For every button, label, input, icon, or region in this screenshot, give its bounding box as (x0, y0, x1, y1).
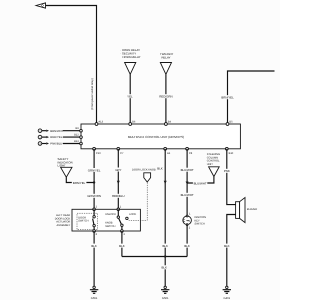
input 3 PNK/BLU (38, 142, 81, 146)
wire label BLU/WHT (193, 181, 207, 185)
pin C7 (117, 147, 124, 155)
svg-text:BLK: BLK (157, 167, 163, 171)
svg-text:A13: A13 (98, 120, 103, 123)
label: left rear door lock actuator assembly (55, 214, 71, 227)
wire label GRY (114, 168, 122, 172)
svg-text:HORN RELAY: HORN RELAY (123, 55, 141, 59)
wire label BLK (160, 265, 168, 269)
ground G501 (161, 286, 169, 300)
actuator pin 2 (93, 205, 98, 210)
inline connector on C7 wire (117, 181, 120, 184)
ignition key switch pin 1 (189, 213, 191, 216)
svg-text:BLK: BLK (184, 244, 190, 248)
svg-text:G401: G401 (224, 297, 231, 300)
wire: twilight relay to pin B4 (165, 74, 167, 124)
input 2 RED/YEL (38, 135, 81, 139)
wire label PNK (223, 169, 231, 173)
svg-text:GRN/YEL: GRN/YEL (88, 168, 101, 172)
pin C10 (93, 147, 102, 155)
ignition key switch label (195, 216, 207, 226)
svg-text:ASSEMBLY: ASSEMBLY (57, 224, 71, 227)
junction on ground bus (164, 255, 166, 257)
svg-text:LOCK: LOCK (129, 213, 136, 216)
wire: ignition key switch to junction (186, 225, 188, 257)
pin A6 (164, 147, 171, 155)
svg-text:MULTIPLEX CONTROL UNIT (DRIVER: MULTIPLEX CONTROL UNIT (DRIVER'S) (128, 135, 184, 139)
knob switch label (105, 222, 115, 228)
pin C8 (186, 147, 193, 155)
door switch label (78, 216, 88, 222)
steering column control unit label (207, 153, 220, 166)
junction on C10 wire (93, 181, 95, 183)
wire label BLU/WHT (180, 193, 195, 197)
svg-text:A6: A6 (167, 152, 171, 155)
svg-text:G501: G501 (162, 297, 169, 300)
svg-text:LIGHT: LIGHT (58, 163, 67, 167)
svg-text:PNK/BLU: PNK/BLU (50, 142, 62, 146)
svg-text:B13: B13 (74, 140, 79, 143)
wire: safety light branch (66, 177, 94, 182)
actuator pin 3 (121, 230, 126, 237)
svg-text:RED/GRN: RED/GRN (159, 95, 172, 99)
svg-text:UNIT: UNIT (207, 163, 213, 166)
wire: actuator pin 3 down (121, 231, 123, 257)
svg-text:BRN/YEL: BRN/YEL (221, 96, 234, 100)
note (Power to socket) on A13 wire (91, 78, 94, 109)
svg-text:BLK: BLK (91, 244, 97, 248)
svg-text:BLK: BLK (119, 244, 125, 248)
knob switch contacts (117, 209, 128, 231)
svg-text:BLK: BLK (224, 244, 230, 248)
svg-text:GRN/ORN: GRN/ORN (87, 194, 101, 198)
svg-text:B10: B10 (229, 152, 234, 155)
svg-text:RED/YEL: RED/YEL (50, 135, 62, 139)
door switch dashed box (77, 213, 97, 229)
pin B13 (74, 140, 82, 145)
wire: C7 to actuator pin 1 (117, 149, 119, 210)
svg-text:G551: G551 (91, 297, 98, 300)
wire label RED/GRN (158, 94, 173, 98)
svg-text:YEL: YEL (127, 95, 133, 99)
wire label RED/BLU (111, 194, 126, 198)
svg-text:BLK: BLK (161, 266, 167, 270)
svg-text:BLU/WHT: BLU/WHT (181, 168, 194, 172)
actuator pin 1 (117, 205, 122, 210)
pin B12 (74, 134, 82, 139)
multiplex control unit (driver's) (81, 124, 240, 149)
wire: B10 to buzzer (227, 149, 236, 205)
steering column control unit triangle (209, 167, 220, 177)
svg-text:RED/BLU: RED/BLU (112, 194, 125, 198)
twilight relay label (160, 52, 174, 60)
pin B10 (225, 147, 233, 155)
door lock knob label (132, 169, 156, 172)
inline connector on C8 wire (186, 182, 189, 185)
door switch contacts (93, 209, 96, 231)
actuator pin 8 (93, 230, 98, 237)
svg-text:BRN/WHT: BRN/WHT (50, 129, 63, 133)
wire label BLK (223, 244, 231, 248)
inline connector on A6 wire (164, 181, 167, 184)
buzzer (236, 198, 258, 223)
svg-text:SWITCH: SWITCH (195, 223, 205, 226)
wire label BRN/YEL (220, 95, 235, 99)
wire label BLK (156, 166, 163, 170)
svg-text:(From power socket relay): (From power socket relay) (91, 78, 94, 109)
wire label BLK (118, 244, 126, 248)
ignition key switch (183, 215, 192, 225)
ground G401 (223, 286, 231, 300)
dashed link: knob to switch lever (129, 183, 148, 221)
svg-text:DOOR LOCK KNOB: DOOR LOCK KNOB (132, 169, 156, 172)
svg-text:RELAY: RELAY (162, 56, 171, 60)
svg-text:BRN/YEL: BRN/YEL (73, 181, 86, 185)
svg-text:C7: C7 (120, 152, 124, 155)
svg-text:BLU/WHT: BLU/WHT (181, 193, 194, 197)
wire label BLK (161, 244, 169, 248)
wire: C8 to ignition key switch (186, 149, 188, 216)
pin B5 (226, 120, 233, 125)
svg-text:C10: C10 (96, 152, 101, 155)
knob switch LOCK label (129, 213, 136, 216)
wire: horn relay to pin B6 (129, 74, 131, 124)
wire label BLU/WHT (180, 168, 195, 172)
svg-text:BLK: BLK (162, 244, 168, 248)
wire label GRN/YEL (87, 168, 102, 172)
knob switch UNLOCK label (105, 213, 116, 216)
pin B6 (129, 120, 136, 125)
twilight relay off-page triangle (160, 63, 171, 75)
pin B9 (76, 127, 83, 132)
wire: buzzer to ground G401 (227, 215, 236, 287)
wire: A6 down (164, 149, 166, 257)
input 1 BRN/WHT (38, 129, 81, 133)
wire: arrow to pin A13 (46, 6, 97, 125)
safety indicator light triangle (61, 167, 72, 177)
svg-text:PNK: PNK (224, 169, 230, 173)
wire: branch to steering column control unit (187, 177, 214, 184)
wire: junction to ground G501 (164, 257, 166, 287)
ground G551 (90, 286, 98, 300)
svg-text:SWITCH: SWITCH (105, 225, 115, 228)
wire label BRN/YEL (72, 181, 87, 185)
svg-text:GRY: GRY (115, 168, 121, 172)
wire label BLK (90, 244, 98, 248)
ignition key switch pin 2 (189, 227, 191, 230)
off-page arrow (top left) (36, 3, 46, 8)
wire: C10 to actuator pin 2 (93, 149, 95, 210)
door lock knob off-page pentagon (144, 173, 151, 182)
wire: ground bus (122, 256, 187, 258)
svg-text:B6: B6 (132, 120, 136, 123)
svg-text:B12: B12 (74, 134, 79, 137)
svg-text:BLU/WHT: BLU/WHT (194, 181, 207, 185)
pin A13 (95, 120, 103, 125)
svg-text:SWITCH: SWITCH (78, 220, 88, 223)
svg-text:B5: B5 (229, 120, 233, 123)
svg-text:C8: C8 (189, 152, 193, 155)
wire label GRN/ORN (87, 194, 102, 198)
svg-text:B4: B4 (168, 120, 172, 123)
horn relay off-page triangle (125, 63, 136, 75)
svg-text:UNLOCK: UNLOCK (105, 213, 116, 216)
safety indicator light label (58, 157, 73, 167)
wire: actuator pin 8 to ground G551 (93, 231, 95, 286)
wire label YEL (126, 94, 134, 98)
wire label BLK (183, 244, 191, 248)
pin B4 (165, 120, 172, 125)
svg-text:BUZZER: BUZZER (247, 208, 258, 211)
horn relay label (120, 48, 140, 59)
left rear door lock actuator assembly box (72, 209, 140, 231)
wire: top right to pin B5 (228, 71, 275, 124)
svg-text:B9: B9 (76, 127, 80, 130)
